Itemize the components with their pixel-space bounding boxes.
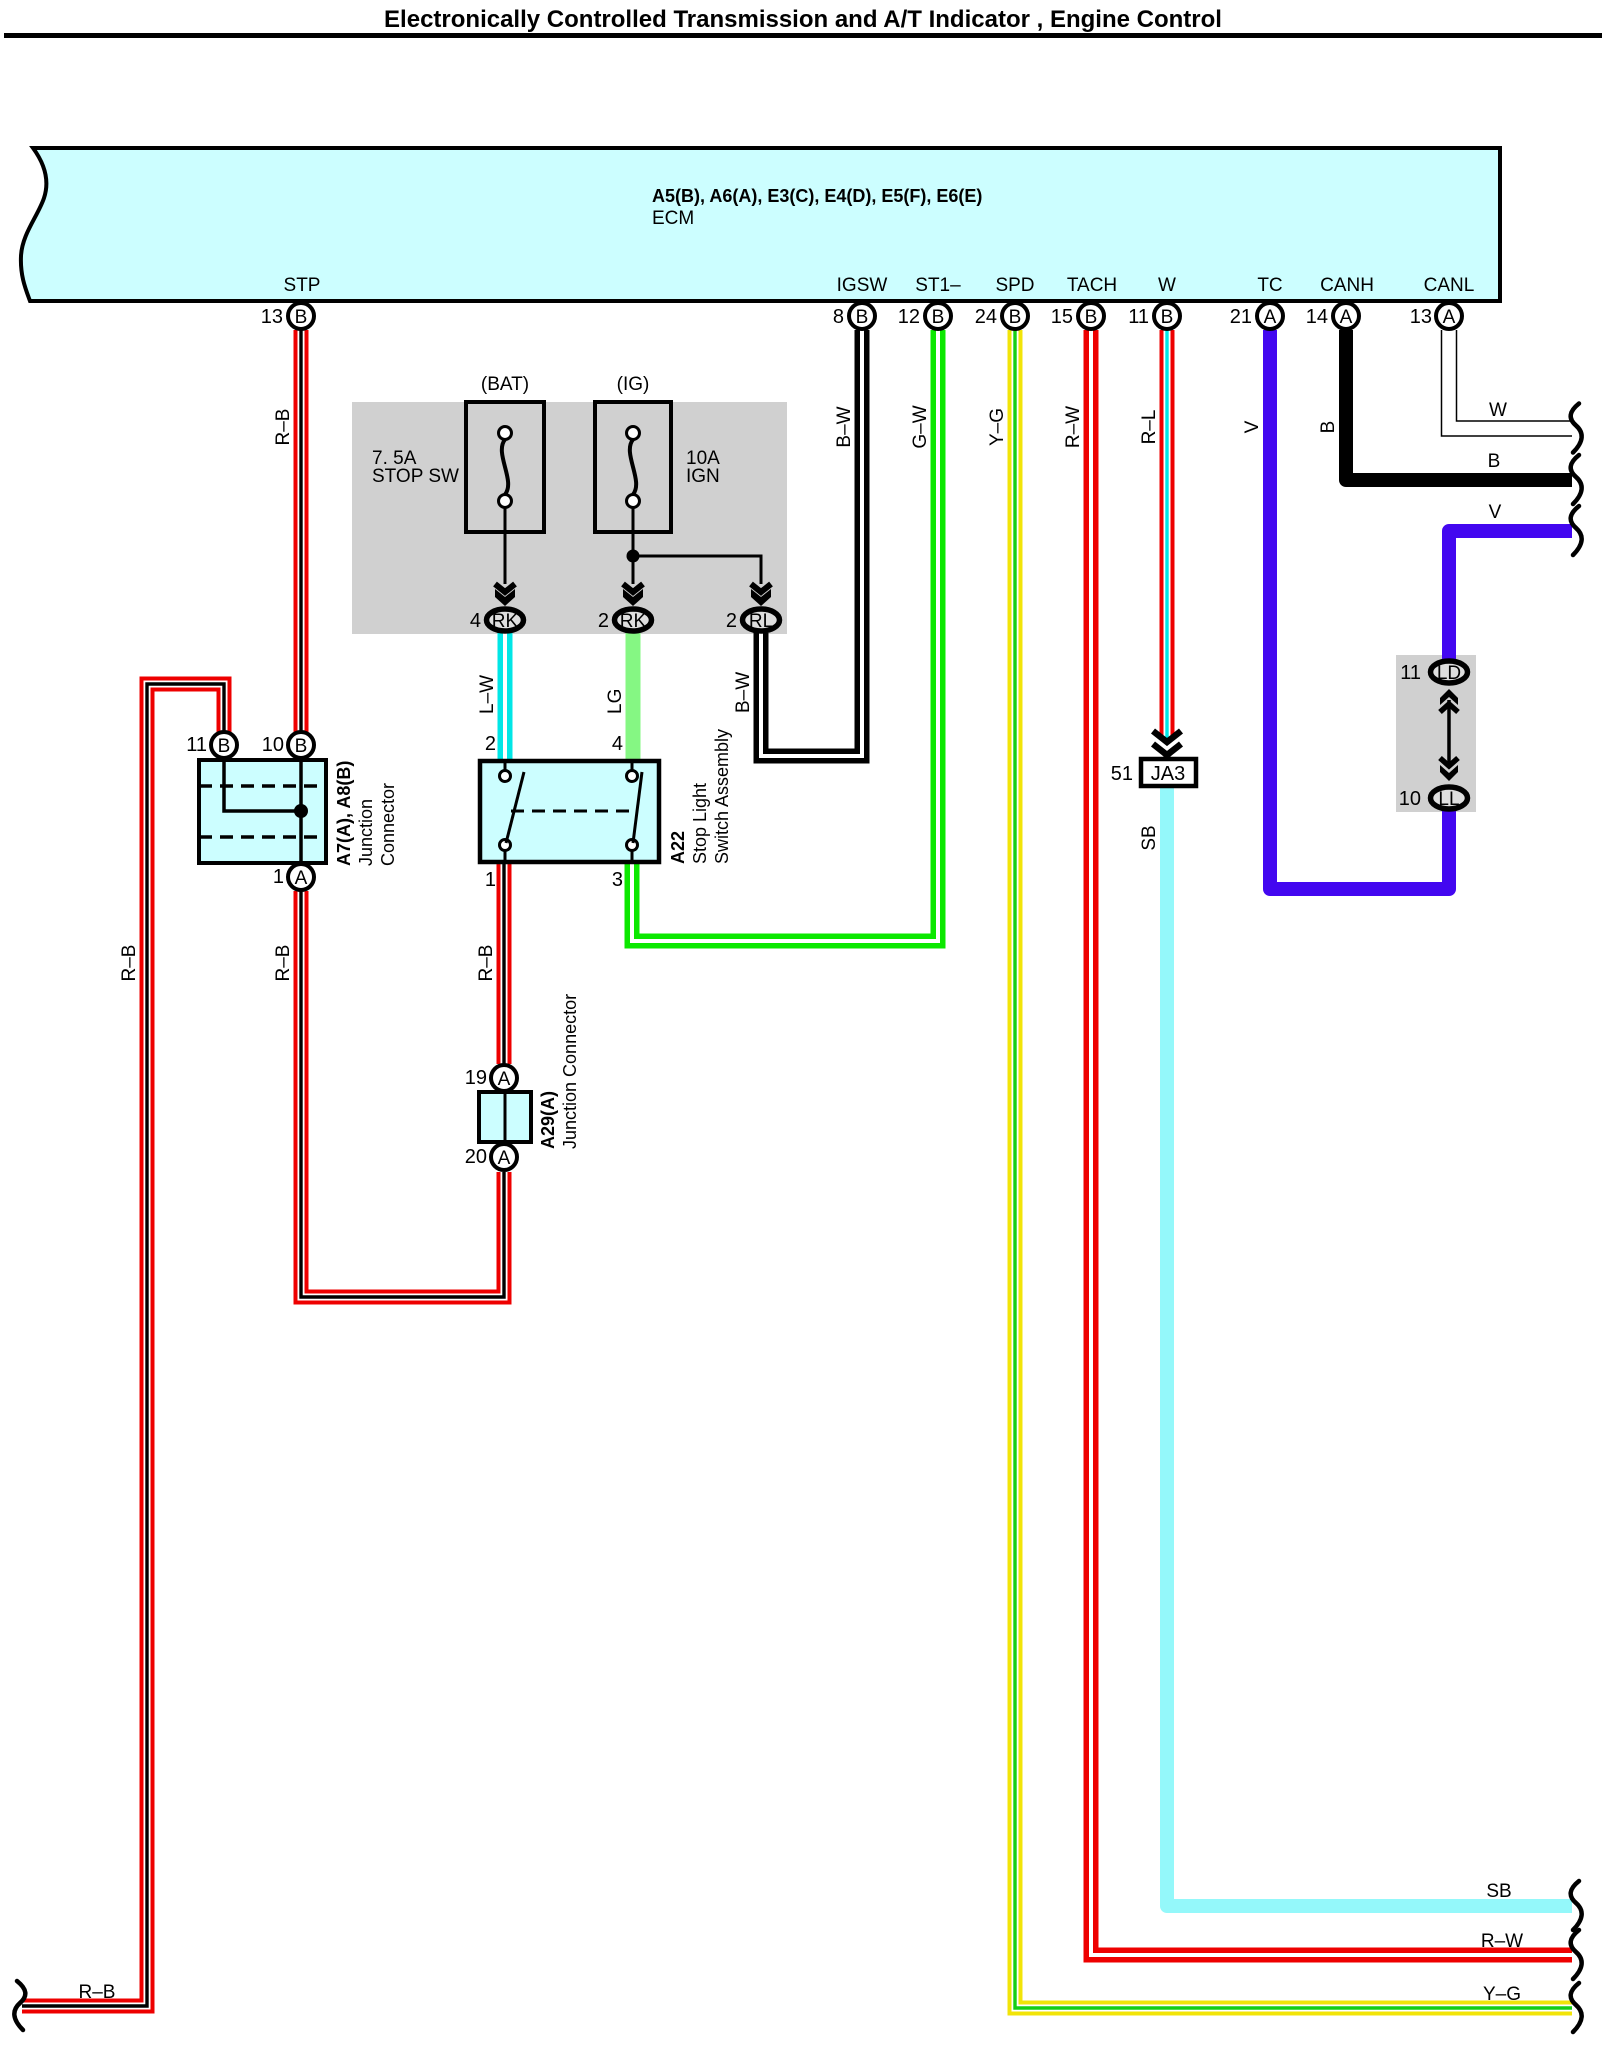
svg-text:A: A (295, 868, 308, 889)
ECM pin 11 B circle (W) (1154, 303, 1180, 329)
svg-text:B–W: B–W (733, 672, 754, 713)
A29 divider line (504, 1092, 507, 1142)
svg-text:W: W (1489, 400, 1507, 421)
arrow into connector 2 RK (623, 584, 643, 606)
svg-text:RK: RK (492, 611, 519, 632)
svg-text:ST1–: ST1– (915, 275, 961, 296)
svg-text:21: 21 (1230, 306, 1252, 328)
break symbol Y-G wire bottom right (1571, 1983, 1582, 2032)
svg-text:Y–G: Y–G (1483, 1984, 1521, 2005)
A29 pin 20 A circle (491, 1144, 517, 1170)
ECM pin 15 B circle (TACH) (1078, 303, 1104, 329)
A29 pin 19 A circle (491, 1065, 517, 1091)
LD/LL connector gray background box (1396, 655, 1476, 812)
svg-text:B: B (1318, 421, 1339, 434)
svg-text:B: B (218, 736, 231, 757)
svg-text:Y–G: Y–G (987, 408, 1008, 446)
svg-text:Connector: Connector (378, 783, 398, 866)
A22 internal contact stubs (504, 761, 507, 771)
wire R-B long left run: from A7 pin 11 jog, down left side, to bottom-left page exit (22, 684, 224, 2006)
svg-text:B: B (1488, 451, 1501, 472)
break symbol SB wire bottom right (1571, 1881, 1582, 1930)
svg-text:3: 3 (612, 869, 623, 891)
svg-text:14: 14 (1306, 306, 1328, 328)
wire Y-G from ECM SPD pin 24 down to bottom-right page exit (1015, 330, 1572, 2008)
svg-text:B: B (856, 307, 869, 328)
ECM pin 24 B circle (SPD) (1002, 303, 1028, 329)
arrow into connector 4 RK (495, 584, 515, 606)
junction dot under 10A fuse (627, 550, 640, 563)
svg-text:B–W: B–W (834, 406, 855, 447)
junction JA3 arrow (1153, 731, 1181, 761)
wire R-B from stop light switch A22 pin 1 down to A29 pin 19 (497, 862, 512, 1064)
svg-text:V: V (1489, 502, 1502, 523)
wire LG from fuse connector 2 RK down to A22 pin 4 (626, 633, 641, 761)
A7 internal wiring (224, 757, 301, 811)
svg-text:A5(B), A6(A), E3(C), E4(D), E5: A5(B), A6(A), E3(C), E4(D), E5(F), E6(E) (652, 186, 982, 206)
svg-text:SB: SB (1486, 1881, 1511, 1902)
svg-text:A7(A), A8(B): A7(A), A8(B) (334, 761, 354, 866)
break symbol W wire right edge (1571, 404, 1582, 453)
svg-text:JA3: JA3 (1151, 763, 1185, 785)
svg-text:(IG): (IG) (617, 374, 650, 395)
ECM pin 14 A circle (CANH) (1333, 303, 1359, 329)
A7 internal dashed lines (199, 784, 326, 788)
break symbol B wire right edge (1571, 455, 1582, 504)
ECM box A5(B), A6(A), E3(C), E4(D), E5(F), E6(E) (21, 148, 1500, 301)
svg-text:R–B: R–B (79, 1982, 116, 2003)
A7 pin 11 B circle (211, 732, 237, 758)
wire V from ECM TC pin 21 down, across, up to connector 10 LL (1270, 330, 1449, 889)
wire from 10A fuse to junction dot (632, 507, 635, 556)
wire G-W from A22 pin 3 down, across, up to ECM ST1- pin 12 (632, 330, 938, 941)
break symbol V wire right edge (1571, 506, 1582, 555)
svg-text:19: 19 (465, 1067, 487, 1089)
svg-text:Junction: Junction (356, 799, 376, 866)
junction connector A7(A), A8(B) box (199, 760, 326, 863)
connector oval 2 RK (615, 609, 652, 631)
svg-text:ECM: ECM (652, 208, 694, 229)
svg-text:8: 8 (833, 306, 844, 328)
A22 switch contacts (500, 771, 511, 782)
svg-text:A: A (1340, 307, 1353, 328)
ECM pin 13 A circle (CANL) (1436, 303, 1462, 329)
wire B from ECM CANH pin 14 to right page edge (1346, 330, 1572, 480)
svg-text:TACH: TACH (1067, 275, 1117, 296)
svg-text:B: B (295, 307, 308, 328)
wire L-W from fuse connector 4 RK down to A22 pin 2 (498, 633, 513, 761)
svg-text:STOP SW: STOP SW (372, 466, 459, 487)
svg-text:RL: RL (749, 611, 773, 632)
svg-text:10: 10 (1399, 788, 1421, 810)
svg-text:11: 11 (1400, 662, 1421, 684)
connector oval 11 LD (1431, 661, 1468, 683)
svg-text:2: 2 (726, 610, 737, 632)
svg-text:2: 2 (598, 610, 609, 632)
svg-text:TC: TC (1257, 275, 1282, 296)
svg-text:IGN: IGN (686, 466, 720, 487)
svg-text:CANH: CANH (1320, 275, 1374, 296)
svg-text:R–B: R–B (273, 409, 294, 446)
A7 internal junction dot (294, 804, 308, 818)
title underline rule (4, 33, 1602, 38)
svg-text:Junction Connector: Junction Connector (560, 994, 580, 1149)
wire R-L from ECM W pin 11 down to junction JA3 (1160, 330, 1175, 738)
junction connector A29(A) box (479, 1092, 531, 1142)
wire R-B from A7 pin 1 down, across, up to A29 pin 20 (301, 891, 504, 1297)
svg-text:SB: SB (1139, 825, 1160, 850)
svg-text:Switch Assembly: Switch Assembly (712, 729, 732, 864)
svg-text:20: 20 (465, 1146, 487, 1168)
wire from 7.5A fuse to connector 4 RK (504, 507, 507, 584)
fuse block gray background box (352, 402, 787, 634)
svg-text:B: B (1009, 307, 1022, 328)
wire from junction dot to connector 2 RK (632, 556, 635, 584)
svg-text:A: A (498, 1069, 511, 1090)
ECM pin 13 B circle (STP) (288, 303, 314, 329)
svg-text:Stop Light: Stop Light (690, 783, 710, 864)
svg-text:Electronically Controlled Tran: Electronically Controlled Transmission a… (384, 6, 1222, 33)
stop light switch assembly A22 box (480, 761, 659, 862)
connector oval 4 RK (487, 609, 524, 631)
svg-text:R–L: R–L (1139, 410, 1160, 445)
connector oval 2 RL (743, 609, 780, 631)
wire B-W from ECM IGSW pin 8 down, across, up to connector 2 RL (761, 330, 862, 756)
fuse 7.5A element symbol (499, 427, 512, 508)
junction JA3 box (1141, 759, 1196, 786)
svg-text:15: 15 (1051, 306, 1073, 328)
svg-text:13: 13 (261, 306, 283, 328)
wire V from right page edge to connector 11 LD (1449, 531, 1572, 659)
svg-text:RK: RK (620, 611, 647, 632)
LD/LL link arrow (1440, 689, 1458, 781)
fuse 10A IGN rectangle (595, 402, 671, 532)
wire R-W from ECM TACH pin 15 down to bottom-right page exit (1091, 330, 1572, 1955)
svg-text:A: A (498, 1148, 511, 1169)
svg-text:2: 2 (485, 733, 496, 755)
svg-text:A22: A22 (668, 831, 688, 864)
arrow into connector 2 RL (751, 584, 771, 606)
A7 pin 1 A circle (288, 864, 314, 890)
wire W from ECM CANL pin 13 to right page edge (1449, 330, 1572, 429)
svg-text:STP: STP (284, 275, 321, 296)
A22 internal dashed link (511, 810, 630, 813)
svg-text:G–W: G–W (910, 405, 931, 448)
wire SB from junction JA3 down to bottom-right page exit (1167, 787, 1572, 1906)
svg-text:10: 10 (262, 734, 284, 756)
svg-text:24: 24 (975, 306, 997, 328)
svg-text:LG: LG (605, 689, 626, 714)
ECM pin 21 A circle (TC) (1257, 303, 1283, 329)
svg-text:SPD: SPD (995, 275, 1034, 296)
svg-text:B: B (932, 307, 945, 328)
svg-text:R–B: R–B (476, 945, 497, 982)
ECM pin 8 B circle (IGSW) (849, 303, 875, 329)
fuse 7.5A STOP SW rectangle (466, 402, 544, 532)
svg-text:W: W (1158, 275, 1176, 296)
A7 pin 10 B circle (288, 732, 314, 758)
svg-text:R–B: R–B (119, 945, 140, 982)
svg-text:1: 1 (485, 869, 496, 891)
svg-text:(BAT): (BAT) (481, 374, 529, 395)
svg-text:11: 11 (1128, 306, 1149, 328)
svg-text:A29(A): A29(A) (538, 1091, 558, 1149)
svg-text:A: A (1264, 307, 1277, 328)
A22 switch blades (506, 772, 524, 843)
wire from junction dot across and down to connector 2 RL (633, 556, 761, 584)
svg-text:11: 11 (186, 734, 207, 756)
svg-text:13: 13 (1410, 306, 1432, 328)
svg-text:LL: LL (1438, 789, 1459, 810)
svg-text:51: 51 (1111, 763, 1133, 785)
ECM pin 12 B circle (ST1-) (925, 303, 951, 329)
svg-text:A: A (1443, 307, 1456, 328)
svg-text:LD: LD (1437, 663, 1461, 684)
svg-text:4: 4 (612, 733, 623, 755)
break symbol R-W wire bottom right (1571, 1930, 1582, 1979)
connector oval 10 LL (1431, 787, 1468, 809)
fuse 10A element symbol (627, 427, 640, 508)
svg-text:R–B: R–B (273, 945, 294, 982)
svg-text:B: B (295, 736, 308, 757)
svg-text:B: B (1161, 307, 1174, 328)
svg-text:1: 1 (273, 866, 284, 888)
svg-text:IGSW: IGSW (837, 275, 888, 296)
svg-text:4: 4 (470, 610, 481, 632)
wire R-B from ECM STP pin 13 down to junction connector A7 pin 10 (294, 330, 309, 732)
svg-text:R–W: R–W (1063, 406, 1084, 448)
break symbol R-B wire bottom left (14, 1981, 25, 2030)
svg-text:L–W: L–W (477, 675, 498, 714)
svg-text:R–W: R–W (1481, 1931, 1523, 1952)
svg-text:12: 12 (898, 306, 920, 328)
svg-text:CANL: CANL (1424, 275, 1475, 296)
svg-text:V: V (1242, 420, 1263, 433)
svg-text:B: B (1085, 307, 1098, 328)
